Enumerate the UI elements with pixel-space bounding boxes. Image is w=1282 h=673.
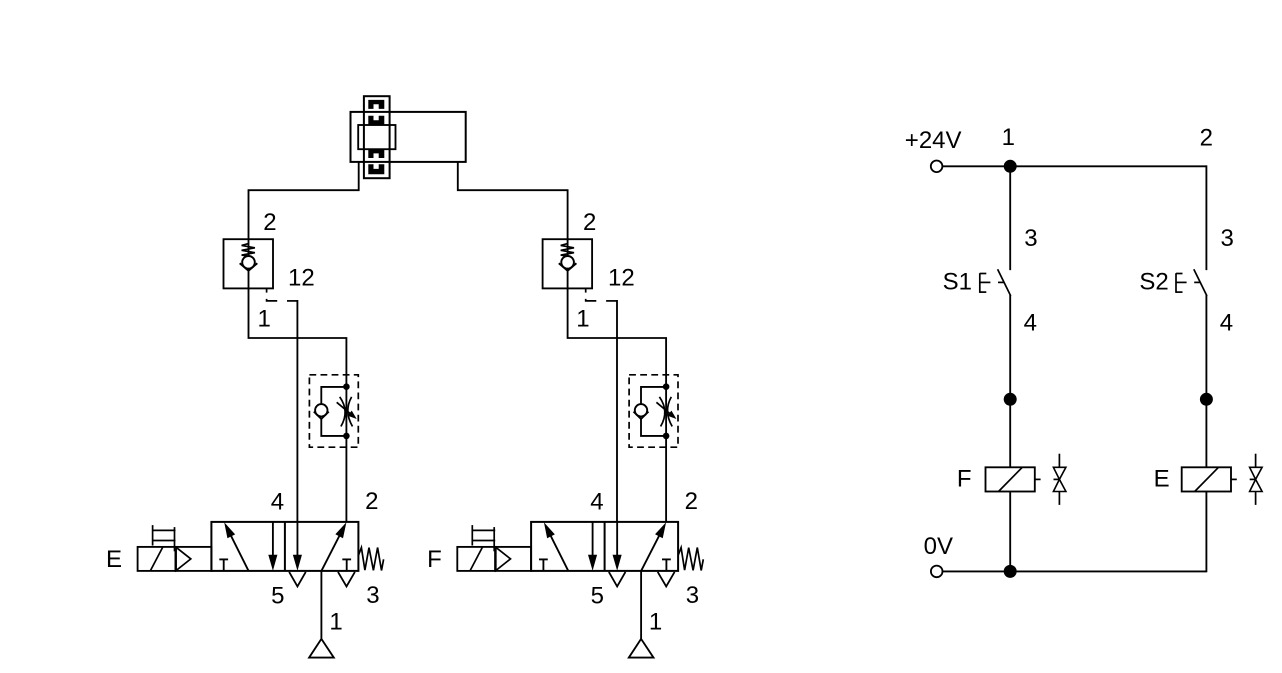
svg-text:4: 4	[1220, 309, 1233, 336]
svg-text:1: 1	[576, 306, 589, 333]
svg-text:5: 5	[591, 582, 604, 609]
svg-text:S2: S2	[1139, 268, 1168, 295]
svg-text:4: 4	[1024, 309, 1037, 336]
svg-text:S1: S1	[943, 269, 972, 296]
svg-text:3: 3	[366, 582, 379, 609]
svg-text:0V: 0V	[924, 533, 953, 560]
svg-text:E: E	[1154, 466, 1170, 493]
svg-text:+24V: +24V	[905, 127, 962, 154]
svg-text:3: 3	[1221, 225, 1234, 252]
svg-text:F: F	[957, 466, 972, 493]
svg-text:2: 2	[365, 488, 378, 515]
svg-text:E: E	[106, 546, 122, 573]
svg-text:1: 1	[649, 609, 662, 636]
svg-text:5: 5	[271, 582, 284, 609]
svg-text:2: 2	[685, 488, 698, 515]
svg-text:4: 4	[590, 488, 603, 515]
svg-text:2: 2	[1200, 124, 1213, 151]
svg-text:1: 1	[1002, 124, 1015, 151]
svg-text:3: 3	[1024, 225, 1037, 252]
svg-text:12: 12	[288, 265, 315, 292]
svg-text:1: 1	[258, 306, 271, 333]
svg-text:2: 2	[583, 209, 596, 236]
svg-text:F: F	[427, 546, 442, 573]
svg-text:3: 3	[686, 582, 699, 609]
svg-text:2: 2	[263, 209, 276, 236]
svg-text:12: 12	[608, 265, 635, 292]
svg-text:4: 4	[271, 488, 284, 515]
svg-text:1: 1	[329, 609, 342, 636]
